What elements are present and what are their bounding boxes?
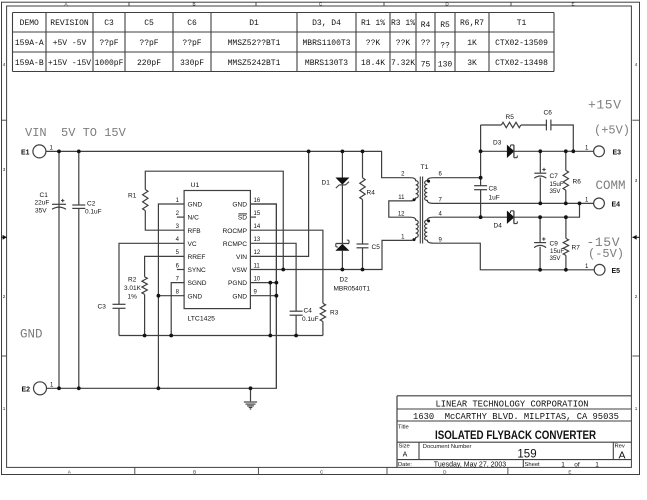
svg-text:C9: C9 bbox=[550, 241, 559, 248]
transformer T1 bbox=[398, 164, 443, 244]
svg-text:of: of bbox=[574, 461, 580, 468]
svg-text:C6: C6 bbox=[187, 19, 197, 28]
svg-text:GND: GND bbox=[232, 293, 247, 300]
diode D3 schottky bbox=[493, 140, 517, 158]
svg-text:R6: R6 bbox=[573, 179, 582, 186]
junction dot bus PGND bbox=[268, 334, 272, 338]
svg-text:??K: ??K bbox=[396, 39, 411, 48]
wire R1 top feedback loop bbox=[145, 171, 283, 269]
svg-text:C3: C3 bbox=[98, 304, 107, 311]
svg-text:330pF: 330pF bbox=[180, 59, 204, 68]
wire U1 pin 8 GND stub bbox=[158, 295, 184, 297]
svg-text:REVISION: REVISION bbox=[50, 19, 89, 28]
junction dot bus C4 bbox=[294, 334, 298, 338]
svg-text:11: 11 bbox=[398, 195, 405, 201]
svg-text:CTX02-13498: CTX02-13498 bbox=[495, 59, 548, 68]
svg-text:0.1uF: 0.1uF bbox=[302, 316, 319, 323]
net label VIN 5V TO 15V bbox=[25, 126, 127, 140]
svg-text:DEMO: DEMO bbox=[20, 19, 39, 28]
junction dot pin9 GND bbox=[275, 294, 279, 298]
ground symbol bbox=[244, 402, 257, 409]
wire U1 pin 9 GND stub bbox=[250, 295, 276, 297]
svg-text:35V: 35V bbox=[550, 188, 562, 195]
junction dot VIN rail pin12 branch bbox=[307, 150, 311, 154]
table row 159A-A bbox=[15, 39, 548, 51]
wire C3 bottom to ground bus bbox=[118, 308, 120, 335]
wire R5 C6 loop bbox=[481, 125, 574, 151]
svg-text:15: 15 bbox=[254, 211, 261, 217]
resistor R7 bbox=[563, 238, 580, 255]
svg-text:C2: C2 bbox=[87, 201, 96, 208]
svg-text:4: 4 bbox=[3, 62, 6, 67]
svg-text:SGND: SGND bbox=[188, 280, 207, 287]
title block document number 159 bbox=[517, 449, 536, 461]
svg-text:130: 130 bbox=[438, 60, 453, 69]
svg-text:RFB: RFB bbox=[188, 228, 202, 235]
svg-text:15uF: 15uF bbox=[550, 181, 564, 188]
wire C8 bottom to pin 4 line bbox=[480, 190, 482, 218]
svg-text:D4: D4 bbox=[494, 223, 503, 230]
wire U1 pin 13 RCMPC to C4 top bbox=[250, 243, 296, 311]
svg-text:+15V: +15V bbox=[588, 98, 622, 113]
junction dot COMM R6 bbox=[564, 202, 568, 206]
svg-text:??pF: ??pF bbox=[99, 39, 118, 48]
svg-text:GND: GND bbox=[188, 293, 203, 300]
wire R1 bottom to U1 pin 3 RFB bbox=[145, 211, 184, 231]
wire C2 branch vertical bbox=[78, 151, 80, 388]
svg-text:C4: C4 bbox=[304, 308, 313, 315]
wire U1 pin 15 SD stub bbox=[250, 216, 256, 218]
svg-text:Document Number: Document Number bbox=[423, 444, 472, 450]
options table grid bbox=[13, 13, 555, 72]
connector E3 bbox=[585, 145, 621, 156]
left center arrow bbox=[2, 235, 7, 240]
U1 right pin names and numbers bbox=[222, 198, 260, 300]
wire R4 C5 snubber branch bbox=[362, 151, 364, 269]
junction dot pin 8 gnd bbox=[157, 294, 161, 298]
wire R2 bottom to ground bus bbox=[144, 294, 146, 335]
svg-text:D2: D2 bbox=[340, 277, 349, 284]
svg-text:1K: 1K bbox=[467, 39, 477, 48]
capacitor C5 bbox=[357, 244, 381, 251]
svg-text:LTC1425: LTC1425 bbox=[188, 316, 216, 323]
svg-text:VIN 5V TO 15V: VIN 5V TO 15V bbox=[25, 126, 127, 140]
capacitor C2 bbox=[72, 201, 101, 216]
capacitor C3 bbox=[98, 304, 126, 311]
wire R7 branch bbox=[565, 217, 567, 270]
svg-text:E5: E5 bbox=[612, 268, 621, 275]
connector E2 bbox=[22, 382, 55, 395]
svg-text:12: 12 bbox=[254, 250, 261, 256]
table header row bbox=[20, 19, 527, 30]
svg-text:R3: R3 bbox=[330, 310, 339, 317]
capacitor C6 bbox=[544, 110, 553, 131]
title block title bbox=[435, 428, 596, 442]
svg-text:18.4K: 18.4K bbox=[361, 59, 385, 68]
svg-text:3: 3 bbox=[635, 178, 638, 183]
junction dot pin4 C9 bbox=[538, 215, 542, 219]
title block Date bbox=[398, 461, 506, 468]
svg-text:D3: D3 bbox=[493, 140, 502, 147]
svg-text:3K: 3K bbox=[467, 59, 477, 68]
svg-text:4: 4 bbox=[635, 62, 638, 67]
svg-text:16: 16 bbox=[254, 198, 261, 204]
svg-text:1: 1 bbox=[3, 406, 6, 411]
wire GND rail from E2 to U1 grounds bbox=[47, 204, 277, 388]
svg-text:LINEAR TECHNOLOGY CORPORATION: LINEAR TECHNOLOGY CORPORATION bbox=[435, 400, 588, 410]
svg-text:VC: VC bbox=[188, 241, 197, 248]
svg-text:SYNC: SYNC bbox=[188, 267, 207, 274]
svg-text:Title: Title bbox=[398, 425, 409, 431]
svg-text:VIN: VIN bbox=[236, 254, 247, 261]
junction dot VSW R1 bbox=[281, 268, 285, 272]
wire U1 pin 10 PGND to ground bus bbox=[250, 283, 276, 336]
svg-text:2: 2 bbox=[3, 294, 6, 299]
capacitor C9 bbox=[534, 237, 564, 261]
title block Title label bbox=[398, 425, 409, 431]
svg-text:2: 2 bbox=[635, 294, 638, 299]
capacitor C1 bbox=[35, 192, 67, 214]
resistor R3 bbox=[320, 303, 338, 321]
title block Document Number label bbox=[423, 444, 472, 450]
diode D1 zener bbox=[322, 178, 350, 188]
junction dot VSW C5 bbox=[361, 268, 365, 272]
diode D4 schottky bbox=[494, 211, 518, 230]
junction dot pin10 PGND b bbox=[275, 281, 279, 285]
junction dot VIN rail C2 bbox=[77, 150, 81, 154]
resistor R4 bbox=[360, 178, 375, 200]
net label (-5V) bbox=[588, 247, 624, 261]
svg-text:MMSZ5242BT1: MMSZ5242BT1 bbox=[228, 59, 281, 68]
wire U1 pin 5 RREF to R2 top bbox=[145, 256, 185, 276]
svg-text:N/C: N/C bbox=[188, 215, 200, 222]
wire U1 pins 1-8 ground vertical to GND rail bbox=[158, 204, 184, 388]
svg-text:1%: 1% bbox=[128, 294, 138, 301]
svg-text:R1: R1 bbox=[128, 193, 137, 200]
svg-text:??K: ??K bbox=[366, 39, 381, 48]
junction dot pin4 C8 bbox=[479, 215, 483, 219]
svg-text:GND: GND bbox=[20, 328, 43, 342]
svg-text:E: E bbox=[568, 469, 571, 474]
wire U1 pin 6 SYNC stub bbox=[177, 269, 184, 271]
svg-text:11: 11 bbox=[254, 263, 261, 269]
junction dot COMM C7 bbox=[538, 202, 542, 206]
wire transformer pin 9 to E5 bbox=[434, 243, 595, 270]
title block address bbox=[413, 412, 619, 422]
junction dot pin6 C8 bbox=[479, 176, 483, 180]
wire C1 branch vertical bbox=[58, 151, 60, 388]
svg-text:Tuesday, May 27, 2003: Tuesday, May 27, 2003 bbox=[434, 461, 506, 468]
svg-text:MMSZ52??BT1: MMSZ52??BT1 bbox=[228, 39, 281, 48]
title block company bbox=[435, 400, 588, 410]
junction dot VSW D2 bbox=[341, 268, 345, 272]
svg-text:U1: U1 bbox=[191, 182, 200, 189]
svg-text:7.32K: 7.32K bbox=[391, 59, 415, 68]
svg-text:1: 1 bbox=[561, 461, 565, 468]
wire U1 pin 14 ROCMP to R3 top bbox=[250, 230, 323, 303]
svg-text:R2: R2 bbox=[128, 277, 137, 284]
svg-text:1630 McCARTHY BLVD. MILPITAS,: 1630 McCARTHY BLVD. MILPITAS, CA 95035 bbox=[413, 412, 619, 422]
right center arrow bbox=[632, 235, 639, 240]
svg-text:PGND: PGND bbox=[228, 280, 247, 287]
svg-text:C7: C7 bbox=[550, 173, 559, 180]
wire transformer pin 6 to C8 and D3 anode bbox=[434, 125, 481, 186]
svg-text:1: 1 bbox=[635, 406, 638, 411]
wire C9 branch bbox=[539, 217, 541, 270]
wire GND symbol stem bbox=[250, 388, 252, 401]
svg-text:MBRS1100T3: MBRS1100T3 bbox=[302, 39, 350, 48]
svg-text:1uF: 1uF bbox=[489, 195, 500, 202]
junction dot VIN rail R4 branch bbox=[361, 150, 365, 154]
svg-text:14: 14 bbox=[254, 224, 261, 230]
svg-text:B: B bbox=[193, 469, 196, 474]
wire VIN rail from E1 to transformer pin 2 bbox=[46, 151, 410, 177]
title block grid bbox=[397, 396, 631, 468]
wire U1 pin 7 SGND to ground bus bbox=[171, 283, 184, 336]
junction dot GND rail U1 gnd bbox=[157, 386, 161, 390]
junction dot VIN rail C1 bbox=[57, 150, 61, 154]
connector E4 bbox=[585, 197, 620, 208]
svg-text:+5V -5V: +5V -5V bbox=[53, 39, 87, 48]
svg-text:COMM: COMM bbox=[596, 179, 626, 193]
svg-text:1: 1 bbox=[595, 461, 599, 468]
svg-text:SD: SD bbox=[238, 215, 247, 222]
svg-text:3: 3 bbox=[3, 167, 6, 172]
wire COMM rail transformer pin 7 to E4 bbox=[434, 202, 594, 204]
junction dot GND rail C2 bbox=[77, 386, 81, 390]
svg-text:RREF: RREF bbox=[188, 254, 206, 261]
junction dot pin10 PGND a bbox=[268, 281, 272, 285]
svg-text:GND: GND bbox=[188, 202, 203, 209]
wire D4 cathode to COMM rail bbox=[514, 203, 579, 217]
svg-text:??: ?? bbox=[440, 42, 450, 51]
svg-text:35V: 35V bbox=[35, 207, 47, 214]
svg-text:1000pF: 1000pF bbox=[95, 59, 124, 68]
svg-text:R5: R5 bbox=[440, 21, 450, 30]
svg-text:RCMPC: RCMPC bbox=[223, 241, 247, 248]
diode D2 schottky bbox=[334, 240, 371, 293]
wire U1 pin 4 VC to C3 bbox=[119, 243, 184, 304]
svg-text:159: 159 bbox=[517, 449, 536, 461]
svg-text:159A-A: 159A-A bbox=[15, 39, 44, 48]
svg-text:C3: C3 bbox=[104, 19, 114, 28]
svg-text:GND: GND bbox=[232, 202, 247, 209]
svg-text:ROCMP: ROCMP bbox=[222, 228, 247, 235]
junction dot bus R2 bbox=[143, 334, 147, 338]
title block Size bbox=[399, 444, 410, 459]
wire R6 branch bbox=[565, 151, 567, 203]
wire analog ground bus bbox=[119, 335, 323, 337]
title block Sheet bbox=[525, 461, 600, 468]
svg-text:E: E bbox=[571, 2, 574, 7]
svg-text:C5: C5 bbox=[372, 244, 381, 251]
connector E1 bbox=[21, 145, 54, 158]
svg-text:R6,R7: R6,R7 bbox=[460, 19, 484, 28]
svg-text:12: 12 bbox=[398, 211, 405, 217]
svg-text:159A-B: 159A-B bbox=[15, 59, 44, 68]
svg-text:Sheet: Sheet bbox=[525, 462, 541, 468]
svg-text:C1: C1 bbox=[40, 192, 49, 199]
resistor R2 bbox=[124, 277, 147, 301]
junction dot bus SGND bbox=[169, 334, 173, 338]
junction dot D3 line left bbox=[479, 149, 483, 153]
svg-text:Size: Size bbox=[399, 444, 410, 450]
svg-text:13: 13 bbox=[254, 237, 261, 243]
svg-text:MBRS130T3: MBRS130T3 bbox=[305, 59, 348, 68]
svg-text:E2: E2 bbox=[22, 387, 31, 394]
net label (+5V) bbox=[594, 124, 630, 138]
svg-text:E3: E3 bbox=[613, 150, 622, 157]
wire U1 pin 12 VIN up to VIN rail bbox=[250, 151, 308, 256]
svg-text:A: A bbox=[403, 452, 408, 459]
svg-text:E1: E1 bbox=[21, 150, 30, 157]
wire transformer pin 4 to D4 anode bbox=[434, 216, 508, 218]
capacitor C8 bbox=[474, 186, 500, 202]
wire D3 output rail to E3 bbox=[481, 150, 594, 152]
net label COMM bbox=[596, 179, 626, 193]
svg-text:22uF: 22uF bbox=[35, 200, 50, 207]
svg-text:ISOLATED FLYBACK CONVERTER: ISOLATED FLYBACK CONVERTER bbox=[435, 428, 596, 442]
svg-text:R4: R4 bbox=[367, 190, 376, 197]
svg-text:VSW: VSW bbox=[232, 267, 248, 274]
svg-text:75: 75 bbox=[421, 60, 431, 69]
junction dot E5 C9 bbox=[538, 268, 542, 272]
wire D1 D2 clamp branch bbox=[341, 151, 343, 269]
wire C4 bottom to ground bus bbox=[295, 315, 297, 335]
junction dot GND rail C1 bbox=[57, 386, 61, 390]
svg-text:MBR0540T1: MBR0540T1 bbox=[334, 286, 371, 293]
svg-text:A: A bbox=[618, 450, 625, 462]
resistor R1 bbox=[128, 190, 148, 211]
svg-text:+15V -15V: +15V -15V bbox=[48, 59, 91, 68]
svg-text:??: ?? bbox=[421, 39, 431, 48]
svg-text:D1: D1 bbox=[249, 19, 259, 28]
svg-text:C5: C5 bbox=[144, 19, 154, 28]
junction dot pin4 R7 bbox=[564, 215, 568, 219]
svg-text:10: 10 bbox=[254, 276, 261, 282]
svg-text:R5: R5 bbox=[506, 114, 515, 121]
resistor R5 bbox=[501, 114, 520, 128]
svg-text:E4: E4 bbox=[612, 202, 621, 209]
svg-text:CTX02-13509: CTX02-13509 bbox=[495, 39, 548, 48]
svg-text:C8: C8 bbox=[489, 186, 498, 193]
table row 159A-B bbox=[15, 59, 548, 70]
svg-text:R3 1%: R3 1% bbox=[391, 19, 415, 28]
capacitor C7 bbox=[534, 168, 564, 195]
junction dot D3 line R6 bbox=[564, 149, 568, 153]
net label +15V bbox=[588, 98, 622, 113]
wire R3 bottom to ground bus bbox=[322, 322, 324, 336]
svg-text:220pF: 220pF bbox=[137, 59, 161, 68]
svg-text:B: B bbox=[192, 2, 195, 7]
wire C7 branch bbox=[539, 151, 541, 203]
title block Rev bbox=[615, 444, 626, 462]
svg-text:??pF: ??pF bbox=[139, 39, 158, 48]
junction dot GND rail ground symbol bbox=[249, 386, 253, 390]
junction dot D3 line C6 loop bbox=[571, 149, 575, 153]
svg-text:0.1uF: 0.1uF bbox=[85, 208, 102, 215]
net label GND bbox=[20, 328, 43, 342]
svg-text:R7: R7 bbox=[572, 245, 581, 252]
svg-text:T1: T1 bbox=[517, 19, 527, 28]
connector E5 bbox=[585, 264, 620, 275]
net label -15V bbox=[587, 235, 621, 250]
svg-text:R1 1%: R1 1% bbox=[361, 19, 385, 28]
svg-text:T1: T1 bbox=[421, 164, 429, 171]
svg-text:??pF: ??pF bbox=[182, 39, 201, 48]
wire transformer pins 11-12 series link bbox=[389, 201, 410, 217]
svg-text:C6: C6 bbox=[544, 110, 553, 117]
op-amp U1 LTC1425 body bbox=[184, 182, 250, 323]
svg-text:Date:: Date: bbox=[398, 462, 412, 468]
svg-text:D1: D1 bbox=[322, 180, 331, 187]
junction dot E5 R7 bbox=[564, 268, 568, 272]
wire VSW rail U1 pin 11 to transformer pin 1 bbox=[250, 240, 410, 269]
junction dot VIN rail D1 branch bbox=[341, 150, 345, 154]
svg-text:(-5V): (-5V) bbox=[588, 247, 624, 261]
resistor R6 bbox=[563, 170, 581, 190]
wire U1 pin 16 GND down to pin 9 and GND rail bbox=[250, 204, 276, 388]
svg-text:35V: 35V bbox=[550, 255, 562, 262]
junction dot D3 line C7 bbox=[538, 149, 542, 153]
capacitor C4 bbox=[290, 308, 319, 324]
junction dot COMM D4 branch bbox=[578, 202, 582, 206]
U1 left pin names and numbers bbox=[176, 198, 207, 300]
svg-text:R4: R4 bbox=[421, 21, 431, 30]
svg-text:D3, D4: D3, D4 bbox=[312, 19, 341, 28]
wire U1 pin 2 N/C stub bbox=[177, 216, 184, 218]
svg-text:(+5V): (+5V) bbox=[594, 124, 630, 138]
svg-text:3.01K: 3.01K bbox=[124, 285, 142, 292]
